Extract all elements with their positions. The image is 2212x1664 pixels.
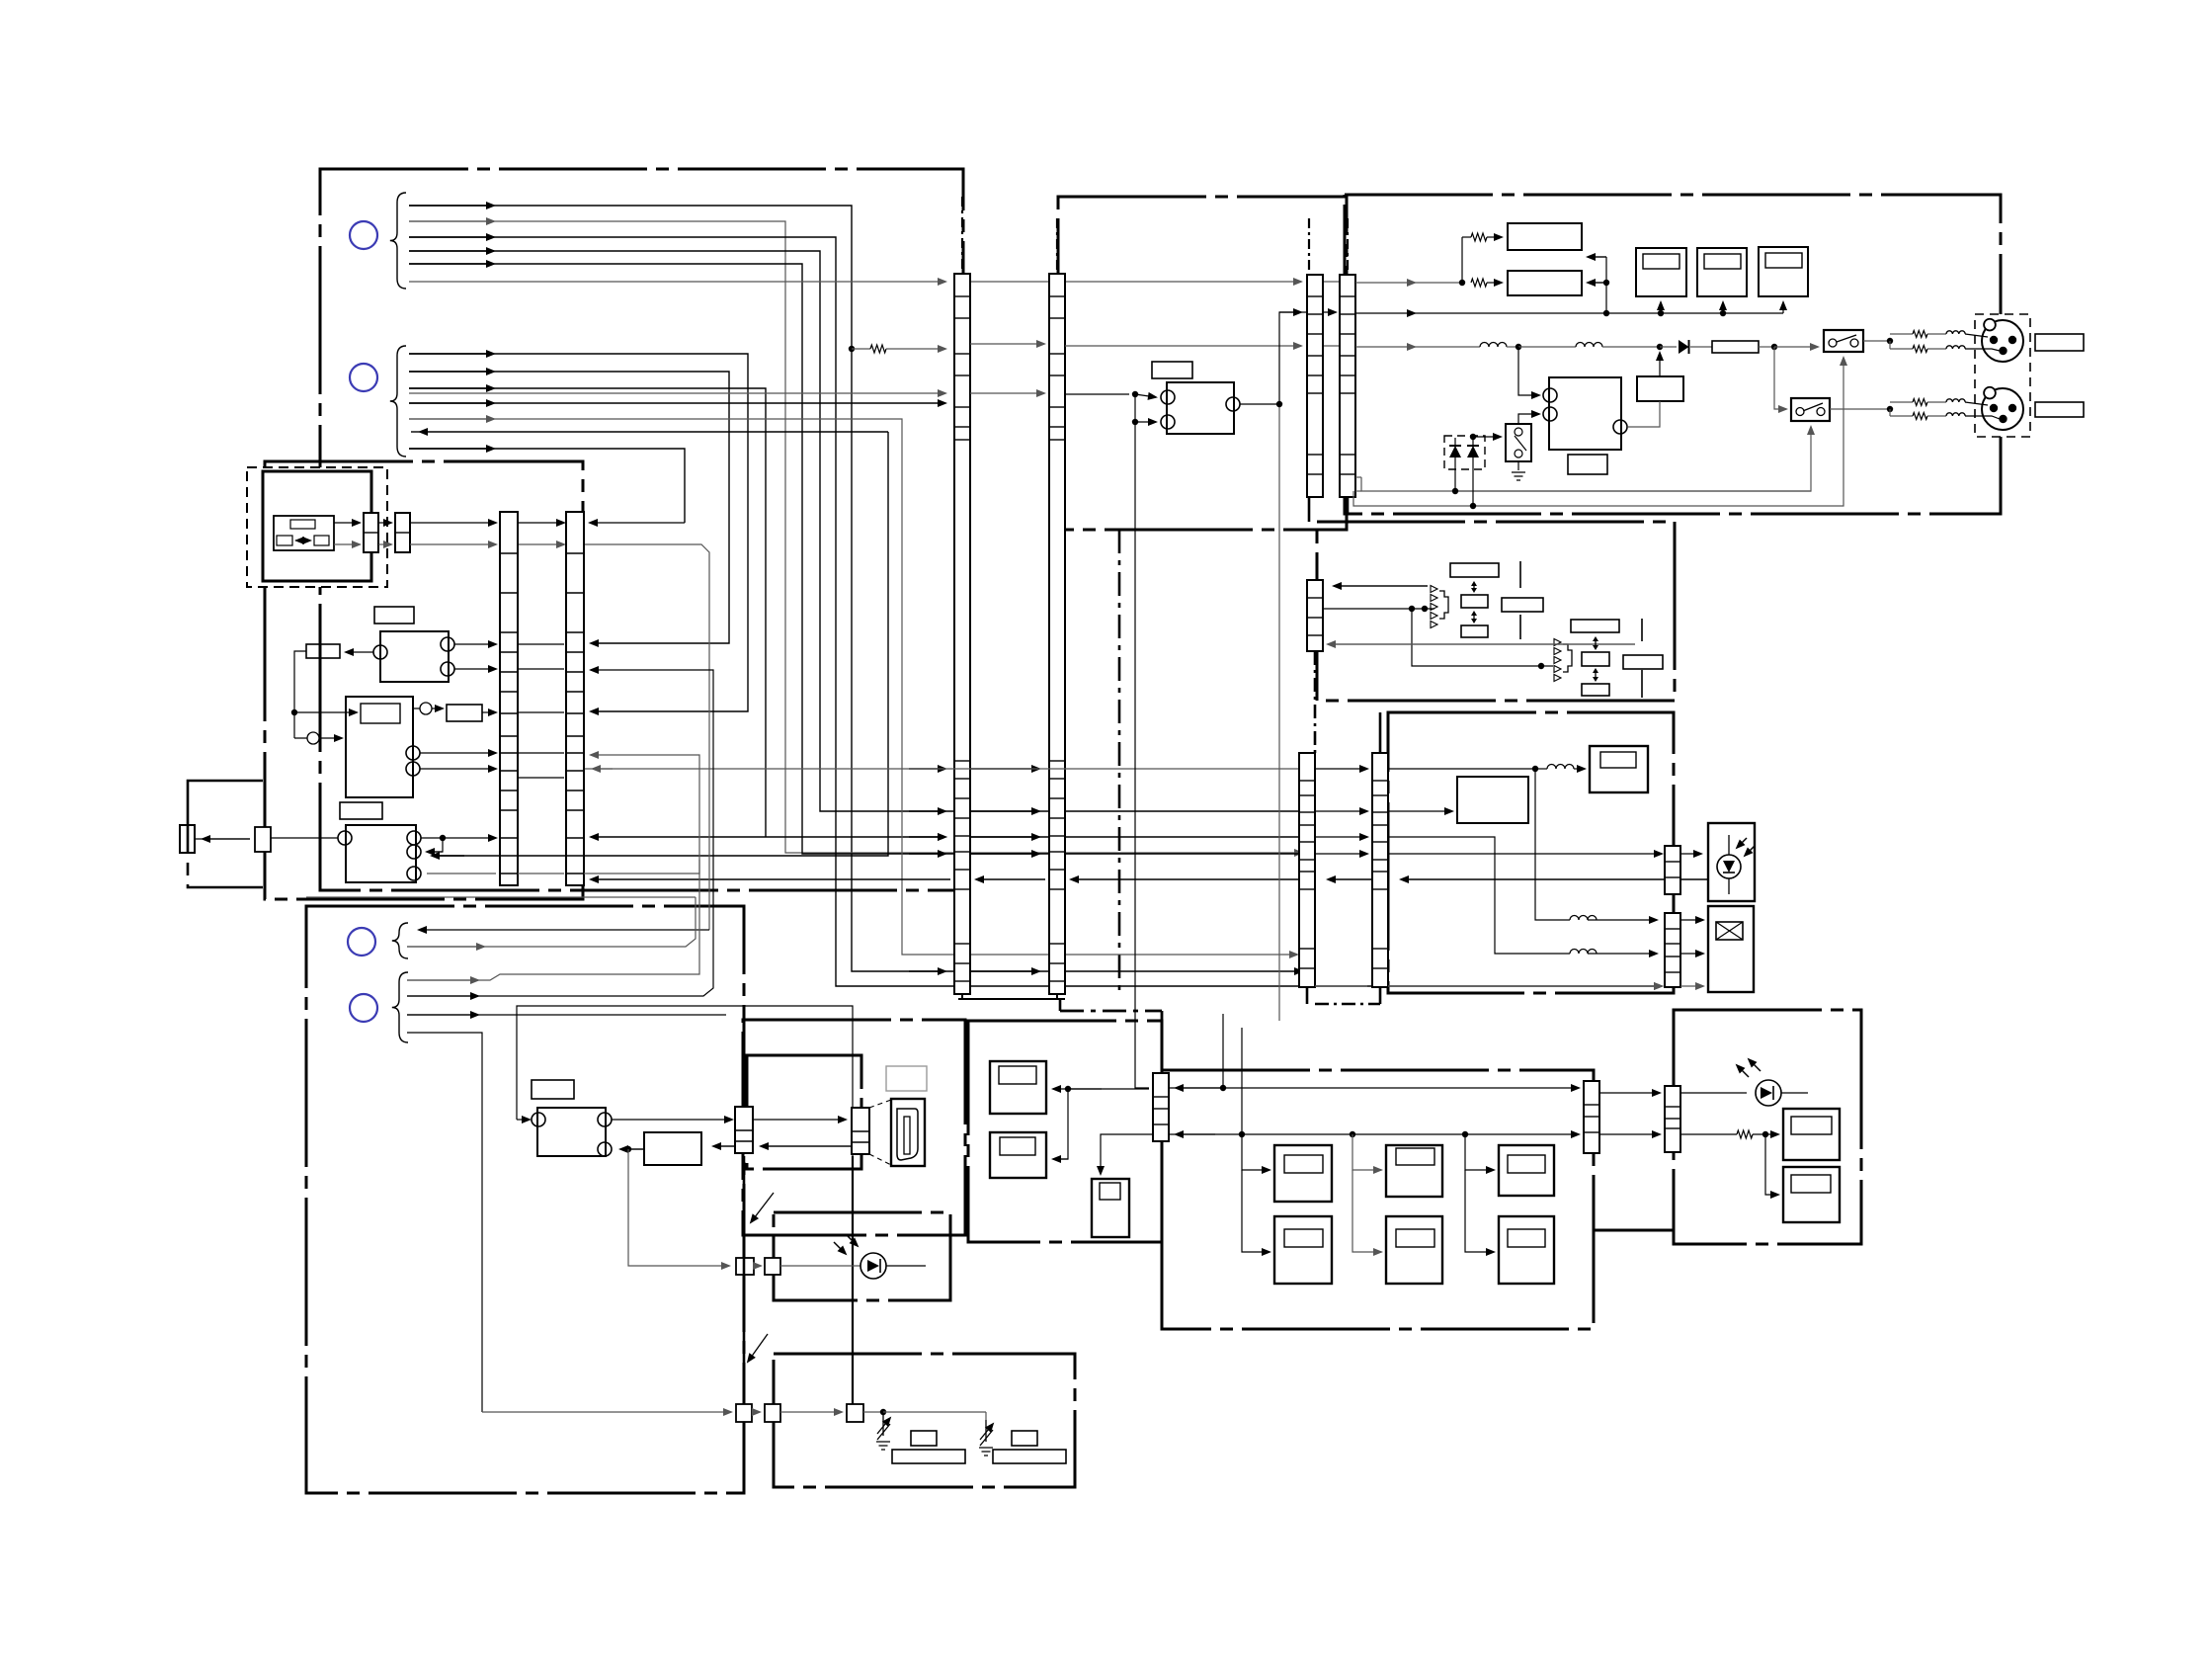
wire into C2 clock xyxy=(294,711,357,713)
block BOX-H2 (HDMI level) xyxy=(644,1132,701,1165)
IC E1 (EEPROM) xyxy=(1636,248,1686,296)
resistor R-E2 xyxy=(1471,279,1487,287)
wire CN503 to LED box xyxy=(1680,853,1701,855)
wire H bus2 line4 drop xyxy=(407,1033,482,1412)
board M (IR receiver board) outline xyxy=(774,1212,950,1300)
connector CN503 (sensor upper) xyxy=(1665,846,1680,894)
wire C1 out upper xyxy=(454,643,496,645)
arrow into CN101/CN102 y847 xyxy=(909,836,945,838)
connector CN-N1 xyxy=(736,1404,752,1422)
battery BT1 xyxy=(180,825,195,853)
block K4 (reg) xyxy=(1274,1216,1332,1284)
resistor R-L1 xyxy=(1737,1130,1753,1138)
block J3 (DC/DC 3) xyxy=(1092,1179,1129,1237)
connector CN301 xyxy=(1307,275,1323,497)
inductor L-E1 xyxy=(1480,343,1507,348)
connector CN-M2 (mech) xyxy=(395,513,410,552)
link CN301 to board F connector xyxy=(1308,497,1311,522)
block F-B2 xyxy=(1461,595,1488,608)
return wire through connectors xyxy=(1401,878,1708,880)
arrow into CN101/CN102 y821 xyxy=(909,810,945,812)
block BOX-E2 (play amp) xyxy=(1508,271,1582,295)
wire bus1 line3 xyxy=(409,237,1662,986)
board J (DC power board) outline xyxy=(968,1021,1162,1242)
double arrow F2 xyxy=(1473,614,1475,621)
label box LB-H1 xyxy=(532,1080,574,1099)
wire CN701 feed from above xyxy=(1222,1014,1224,1088)
photodiode PD1 xyxy=(1717,855,1741,878)
wire into IC H1 xyxy=(517,1119,530,1121)
double arrow F1 xyxy=(1473,584,1475,590)
wire I return xyxy=(761,1145,852,1147)
wire H bus2 line3 xyxy=(407,1014,726,1016)
wire F grey return xyxy=(1328,643,1635,645)
connector CN101 (board A right edge) xyxy=(954,274,970,994)
block BOX-E3 (attenuator) xyxy=(1712,341,1759,353)
crystal X1 xyxy=(911,1431,937,1446)
grey label box above HDMI xyxy=(886,1066,927,1091)
resistor R-X2b xyxy=(1913,413,1927,420)
inductor L-X1a xyxy=(1946,331,1965,334)
link CN401 down to board G connector xyxy=(1314,651,1317,753)
wire C3 grey out xyxy=(427,873,496,874)
wire M feed xyxy=(754,1265,761,1267)
block BOX-E1 (record amp) xyxy=(1508,223,1582,250)
inductor L-G3 xyxy=(1570,916,1597,921)
mechanism deck dashed enclosure xyxy=(247,467,387,587)
IC E3 (EEPROM) xyxy=(1759,247,1808,296)
index circle 2 xyxy=(350,364,377,391)
wire K col1 branches xyxy=(1242,1134,1270,1170)
wire E right feedback xyxy=(1588,256,1606,258)
block F-B3 xyxy=(1461,625,1488,637)
inductor L-X2a xyxy=(1946,399,1965,402)
wire K col2 branches xyxy=(1352,1134,1381,1170)
board K (regulator board) outline xyxy=(1162,1070,1594,1329)
board F (control board) outline xyxy=(1317,522,1675,701)
wire bus1 line2 xyxy=(409,221,1302,853)
wire L feed1 xyxy=(1599,1092,1660,1094)
wire H bus2 line2 xyxy=(407,670,713,996)
wire BOX-H2 right xyxy=(713,1145,735,1147)
double arrow F3 xyxy=(1595,639,1597,647)
block J1 (DC/DC 1) xyxy=(990,1061,1046,1114)
connector CN-M3 xyxy=(736,1258,754,1275)
IC E2 (EEPROM) xyxy=(1697,248,1747,296)
block F-B5 xyxy=(1571,620,1619,632)
board K to board L link border xyxy=(1594,1229,1674,1232)
wire RB-C1 feedback xyxy=(294,651,306,712)
connector CN401 (board F) xyxy=(1307,580,1323,651)
resistor box RB-C1 xyxy=(306,644,340,658)
bus wire y778 long grey xyxy=(585,768,1302,770)
wire bus2 line3 xyxy=(409,388,766,837)
wire into D1 left xyxy=(1065,393,1129,395)
resistor R-X1b xyxy=(1913,346,1927,353)
wire G y864 xyxy=(1315,853,1367,855)
wire K second rail xyxy=(1169,1133,1579,1135)
connector CN601 (board I left) xyxy=(735,1107,753,1153)
arrow into CN101/CN102 y983 xyxy=(909,970,945,972)
block L1 (driver) xyxy=(1783,1109,1840,1160)
wire bus1 line6 (long grey) xyxy=(409,281,945,283)
board N (oscillator board) outline xyxy=(774,1354,1075,1487)
wire N feed xyxy=(482,1411,731,1413)
block K1 (reg) xyxy=(1274,1145,1332,1202)
wire G drop from timecode junction xyxy=(1535,769,1570,920)
wire battery xyxy=(203,838,250,840)
wire D1 long drop to board J xyxy=(1135,394,1149,1088)
label plate XLR1 xyxy=(2035,334,2084,351)
block J2 (DC/DC 2) xyxy=(990,1132,1046,1178)
IC E5 (audio DSP) xyxy=(1549,377,1621,450)
wire H1 return from box H2 xyxy=(625,1146,631,1152)
switch SW-E2 (line out R) xyxy=(1791,398,1830,421)
connector CN201 (board C) xyxy=(500,512,518,885)
inductor L-G1 xyxy=(1547,765,1574,770)
wire L branch down xyxy=(1765,1134,1778,1195)
resistor R-E1 xyxy=(1471,233,1487,241)
block F-B1 xyxy=(1450,563,1499,577)
block F-B8 xyxy=(1623,655,1663,669)
block G1 (TC reader) xyxy=(1457,777,1528,823)
wire D1 output to board E xyxy=(1240,312,1336,404)
wire return vertical xyxy=(435,432,888,856)
wire bus2 line6 (return) xyxy=(420,431,888,433)
wire switch2 to XLR2 xyxy=(1830,408,1890,410)
wire H grey top link xyxy=(306,896,696,898)
wire H2 drop to board M xyxy=(628,1149,729,1266)
label plate XLR2 xyxy=(2035,402,2084,417)
board I (HDMI board) outline xyxy=(743,1020,965,1235)
battery holder dashed border xyxy=(188,781,263,887)
label box LB-D1 xyxy=(1152,362,1192,378)
board E (audio output board) outline xyxy=(1345,195,2001,514)
zener D-E3 xyxy=(1472,438,1474,466)
link CN101 top stubs xyxy=(961,197,963,274)
wire G y821 to block G1 xyxy=(1315,810,1367,812)
wire I link xyxy=(753,1119,846,1121)
wire C3 ports xyxy=(421,837,496,839)
block BOX-E4 (level det) xyxy=(1637,376,1683,401)
flex cable brace upper xyxy=(390,193,406,289)
wire G y847 path down xyxy=(1315,836,1367,838)
IR receive arrows xyxy=(846,1234,858,1246)
IC H1 (HDMI driver) xyxy=(537,1108,606,1156)
switch S-E1 (mic att) with ground xyxy=(1506,424,1531,461)
block K6 (reg) xyxy=(1499,1216,1554,1284)
wires CN504 to X-block xyxy=(1680,919,1703,921)
HDMI flare dashes xyxy=(869,1100,891,1108)
wire G y778 timecode xyxy=(1315,768,1367,770)
wire mech data 529 xyxy=(334,522,360,524)
arrow into CN101/CN102 y778 xyxy=(909,768,945,770)
pointer arrow to board M xyxy=(751,1193,774,1222)
crystal X2 xyxy=(1012,1431,1037,1446)
wire K col3 branches xyxy=(1465,1134,1494,1170)
wire bus2 line2 xyxy=(409,372,729,643)
photodiode arrows xyxy=(1737,838,1747,848)
wire F data2 xyxy=(1323,608,1434,610)
wire grey pair to switches upper xyxy=(1355,490,1361,492)
wire junction to switch SW-E2 xyxy=(1774,347,1786,409)
wire F data1 xyxy=(1334,585,1428,587)
wire C2 ports xyxy=(420,752,496,754)
wire H bus1 return xyxy=(419,929,709,931)
board D lower leg border xyxy=(1118,530,1121,994)
board L (remote sensor board) outline xyxy=(1674,1010,1861,1244)
XLR connector dashed enclosure xyxy=(1975,314,2030,437)
crystal bar F2a xyxy=(1641,619,1643,641)
connector CN504 (sensor lower) xyxy=(1665,913,1680,987)
surge absorber SA1 xyxy=(882,1414,884,1436)
connector CN501 (board G left) xyxy=(1299,753,1315,987)
inductor L-X2b xyxy=(1946,413,1965,416)
wire grey mid 348 xyxy=(970,343,1044,345)
double arrow F4 xyxy=(1595,671,1597,679)
wire G y998 bottom xyxy=(1315,985,1367,987)
IR receiver D-M1 xyxy=(860,1253,886,1279)
bus driver cluster F2 xyxy=(1554,639,1561,646)
inductor L-E2 xyxy=(1576,343,1602,348)
connector CN302 xyxy=(1340,275,1355,497)
board I inner sub-board outline xyxy=(747,1055,861,1169)
block L2 (driver) xyxy=(1783,1167,1840,1222)
surge absorber SA2 xyxy=(985,1420,987,1442)
index circle 1 xyxy=(350,221,377,249)
IC C1 (audio codec) xyxy=(380,631,449,682)
X element xyxy=(1716,922,1743,940)
HDMI receptacle xyxy=(891,1099,925,1166)
index circle 4 xyxy=(350,994,377,1022)
X-block box (buzzer) xyxy=(1708,906,1754,992)
IC D1 (audio ADC) xyxy=(1167,382,1234,434)
wire E main audio line xyxy=(1355,346,1415,348)
wire zener grounds to rails xyxy=(1454,466,1456,491)
wire bus1 line4 xyxy=(409,251,1302,811)
photo sensor box xyxy=(1708,823,1755,901)
flex brace H1 xyxy=(392,923,408,958)
flex cable brace lower xyxy=(390,346,406,457)
wire zener to switch xyxy=(1470,434,1476,440)
connector CN202 (board C) xyxy=(566,512,584,885)
wire E input (line6) resistor network xyxy=(1355,282,1415,284)
wire H1 feed loop xyxy=(517,1006,853,1156)
wire C1 out lower xyxy=(454,668,496,670)
wire IC E5 out to BOX-E4 xyxy=(1628,401,1660,427)
wire K top rail xyxy=(1169,1087,1579,1089)
diode D-E1 xyxy=(1679,340,1689,354)
wire H1 out to connector xyxy=(612,1119,732,1121)
wire bus1 line1 xyxy=(409,206,1302,971)
flex brace H2 xyxy=(392,972,408,1042)
zener D-E2 xyxy=(1454,438,1456,466)
wire bus1 line5 xyxy=(409,264,1302,854)
crystal bar F1a xyxy=(1519,561,1521,588)
resistor R-A1 to connector xyxy=(849,346,855,352)
board A (camera section) outline xyxy=(320,169,963,890)
wire connector bottoms link xyxy=(958,998,1065,1000)
zener pair dashed box xyxy=(1444,436,1485,469)
wire bus2 line1 xyxy=(409,354,748,711)
board G (interface board) outline xyxy=(1388,712,1674,993)
wire bus2 line7 xyxy=(409,449,685,523)
bus driver cluster F1 xyxy=(1431,586,1437,593)
arrow into CN101/CN102 y864 xyxy=(909,853,945,855)
wire to IC E5 in1 xyxy=(1518,347,1539,395)
wire J branch to J2 xyxy=(1053,1089,1068,1159)
XLR jack J2 xyxy=(1982,388,2023,430)
wire into C2 reset with open node xyxy=(293,712,295,738)
wire D drop to board J area xyxy=(1278,404,1280,1021)
block F-B6 xyxy=(1582,652,1609,666)
connector CN-M4 xyxy=(765,1258,780,1275)
connector CN801 (board L) xyxy=(1665,1086,1680,1152)
connector CN102 (board D left edge) xyxy=(1049,274,1065,994)
link board D top edge to CN302 xyxy=(1347,218,1349,275)
board H (jack board) outline xyxy=(306,906,744,1493)
connector CN702 (K right) xyxy=(1584,1081,1599,1153)
wire switch1 to XLR1 xyxy=(1863,340,1890,342)
block G2 (TC gen) with inner xyxy=(1590,746,1648,792)
wire grey mid 351 to board D xyxy=(1065,345,1301,347)
index circle 3 xyxy=(348,928,375,956)
label box LB-C2 xyxy=(340,802,382,819)
block F-B7 xyxy=(1582,684,1609,696)
label box LB-C1 xyxy=(374,607,414,624)
link CN501 top to board F xyxy=(1379,712,1382,753)
resistor box RB-C2 xyxy=(447,705,482,721)
wire to IC E5 in2 xyxy=(1518,414,1539,424)
LED L1 (remote emitter) xyxy=(1756,1080,1781,1106)
connector CN701 (J/K boundary) xyxy=(1153,1073,1169,1141)
wire grey pair to switches lower xyxy=(1355,476,1361,478)
board D (audio interface board) outline xyxy=(1058,197,1347,530)
vertical link through boards M xyxy=(743,1156,746,1493)
wire E supply rail xyxy=(1355,312,1415,314)
connector CN-N2 xyxy=(765,1404,780,1422)
connector CN602 (board I right) xyxy=(852,1108,869,1154)
inductor L-G2 xyxy=(1570,950,1597,955)
wire grey 398 camera data xyxy=(409,392,945,394)
resistor R-X1a xyxy=(1913,331,1927,338)
mechanism IC MC1 xyxy=(274,516,334,550)
switch SW-E1 (line out L) xyxy=(1824,330,1863,352)
connector CN-M1 (mech) xyxy=(364,513,378,552)
wire bus2 line5 xyxy=(409,419,1297,955)
wire mech data 551 xyxy=(334,543,360,545)
wire F data2 branch down xyxy=(1412,609,1541,666)
resistor R-X2a xyxy=(1913,399,1927,406)
wire H bus2 grey xyxy=(407,755,699,980)
wire L feed2 with resistor xyxy=(1599,1133,1660,1135)
IC C2 (system micom) xyxy=(346,697,413,797)
connector CN502 (board G right) xyxy=(1372,753,1388,987)
block F-B4 xyxy=(1502,598,1543,612)
link CN501 bottoms to border xyxy=(1306,987,1309,1004)
block K3 (reg) xyxy=(1499,1145,1554,1196)
XLR jack J1 xyxy=(1982,320,2023,362)
block K2 (reg) xyxy=(1386,1145,1442,1197)
crystal bar F2b xyxy=(1641,670,1643,698)
crystal bar F1b xyxy=(1519,615,1521,639)
IC C2 right port with buffer xyxy=(413,707,443,709)
block K5 (reg) xyxy=(1386,1216,1442,1284)
board C (main CPU board) outline xyxy=(265,461,583,899)
IC C3 (audio amp) xyxy=(346,825,416,882)
pointer arrow to board N xyxy=(748,1334,768,1362)
wire J branch to J3 xyxy=(1101,1134,1155,1174)
LED L1 emission arrows xyxy=(1737,1065,1749,1077)
wire J feed xyxy=(1068,1088,1149,1090)
mechanism deck inner board outline xyxy=(263,471,371,581)
connector CN-N3 xyxy=(847,1404,863,1422)
wire bus2 line4 xyxy=(409,402,945,404)
inductor L-X1b xyxy=(1946,346,1965,349)
wire H bus1 out xyxy=(407,897,696,947)
connector CN-BT xyxy=(255,827,271,852)
